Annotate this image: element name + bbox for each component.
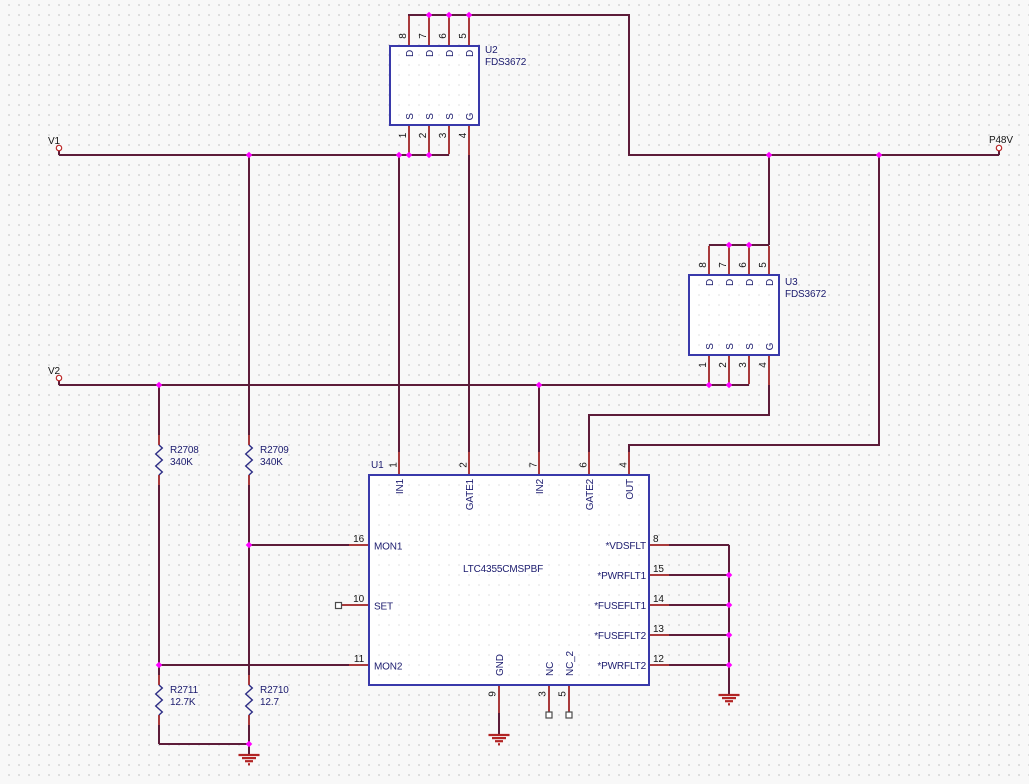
wire V2 to IN2 — [538, 385, 540, 455]
wire R2711 bottom — [158, 725, 160, 744]
wire VDSFLT wire — [669, 544, 729, 546]
wire U2 gate to GATE1 — [468, 155, 470, 455]
pin U2 pin 7 stub — [428, 16, 430, 46]
pin U3 pin 7 stub — [728, 246, 730, 275]
svg-text:S: S — [705, 343, 716, 350]
svg-text:8: 8 — [398, 33, 409, 39]
pin U1 PWRFLT2 stub — [649, 664, 669, 666]
wire bottom gnd wire — [159, 743, 249, 745]
U1 pin name IN1 — [395, 478, 406, 494]
U1 pin name NC_2 — [565, 650, 576, 676]
svg-text:12.7: 12.7 — [260, 697, 279, 708]
svg-text:S: S — [425, 113, 436, 120]
svg-text:LTC4355CMSPBF: LTC4355CMSPBF — [463, 564, 543, 575]
pin U1 FUSEFLT2 stub — [649, 634, 669, 636]
svg-text:13: 13 — [653, 624, 664, 635]
resistor R2708 — [156, 435, 200, 485]
svg-text:D: D — [425, 50, 436, 57]
wire OUT to P48V rail — [629, 155, 879, 455]
junction bus-PWRFLT2 — [726, 662, 733, 669]
junction V1-U2p1 — [406, 152, 413, 159]
pin U2 pin 2 stub — [428, 125, 430, 154]
U2 pin number 8 — [398, 33, 409, 39]
U2 pin number 2 — [418, 132, 429, 138]
junction V2-IN2 — [536, 382, 543, 389]
junction P48V-U3 — [766, 152, 773, 159]
svg-text:5: 5 — [558, 691, 569, 697]
U1 pin name *FUSEFLT1 — [594, 601, 646, 612]
wire FUSEFLT1 wire — [669, 604, 729, 606]
wire PWRFLT2 wire — [669, 664, 729, 666]
junction P48V-OUT — [876, 152, 883, 159]
svg-text:12: 12 — [653, 654, 664, 665]
pin U1 IN2 stub — [538, 452, 540, 475]
svg-text:6: 6 — [438, 33, 449, 39]
wire FUSEFLT2 wire — [669, 634, 729, 636]
pin U1 MON2 stub — [349, 664, 369, 666]
svg-text:*PWRFLT1: *PWRFLT1 — [597, 571, 646, 582]
U1 pin name GATE1 — [465, 478, 476, 510]
junction U3 drain p6 — [746, 242, 753, 249]
U2 reference label — [485, 45, 527, 68]
U2 pin name S pin 2 — [425, 113, 436, 120]
wire V2 to R2708 — [158, 385, 160, 435]
svg-text:D: D — [705, 279, 716, 286]
pin U1 FUSEFLT1 stub — [649, 604, 669, 606]
svg-text:GATE2: GATE2 — [585, 478, 596, 510]
junction U2 drain p6 — [446, 12, 453, 19]
pin U1 GATE2 stub — [588, 452, 590, 475]
U1 pin number 11 — [354, 654, 365, 665]
pin U3 pin 8 stub — [708, 246, 710, 275]
svg-text:V1: V1 — [48, 136, 61, 147]
wire GATE2 to U3 gate — [589, 385, 769, 455]
pin U2 pin 6 stub — [448, 16, 450, 46]
wire R2708 to R2711 — [158, 485, 160, 675]
svg-text:4: 4 — [619, 462, 630, 468]
U3 pin name D pin 7 — [725, 279, 736, 286]
U3 pin number 1 — [698, 362, 709, 368]
wire V1 rail — [59, 154, 449, 156]
net label V2 — [48, 366, 61, 377]
svg-text:NC_2: NC_2 — [565, 650, 576, 676]
U1 pin name IN2 — [535, 478, 546, 494]
U2 pin name D pin 7 — [425, 50, 436, 57]
junction bus-FUSEFLT1 — [726, 602, 733, 609]
junction MON2 tap — [156, 662, 163, 669]
pin U3 pin 3 stub — [748, 355, 750, 384]
pin U3 pin 5 stub — [768, 246, 770, 275]
wire U3 drain rail — [709, 244, 769, 246]
svg-text:R2711: R2711 — [170, 685, 199, 696]
svg-text:3: 3 — [538, 691, 549, 697]
svg-text:U1: U1 — [371, 460, 384, 471]
terminal V1 — [56, 145, 61, 150]
U3 pin name S pin 2 — [725, 343, 736, 350]
wire V1 to R2709 — [248, 155, 250, 435]
terminal wire V1 stub — [58, 151, 60, 155]
pin U1 MON1 stub — [349, 544, 369, 546]
svg-text:1: 1 — [698, 362, 709, 368]
svg-text:D: D — [465, 50, 476, 57]
U3 pin name S pin 3 — [745, 343, 756, 350]
junction V1-U2p2 — [426, 152, 433, 159]
terminal V2 — [56, 375, 61, 380]
U3 pin number 4 — [758, 362, 769, 368]
pin U1 VDSFLT stub — [649, 544, 669, 546]
svg-text:D: D — [725, 279, 736, 286]
pin U1 GATE1 stub — [468, 452, 470, 475]
svg-text:S: S — [445, 113, 456, 120]
svg-text:10: 10 — [353, 594, 364, 605]
svg-text:6: 6 — [738, 262, 749, 268]
ground U1 GND ground — [489, 735, 510, 744]
U1 pin name *PWRFLT1 — [597, 571, 646, 582]
U2 pin number 7 — [418, 33, 429, 39]
U3 pin number 6 — [738, 262, 749, 268]
wire to ground — [248, 744, 250, 755]
svg-text:IN1: IN1 — [395, 478, 406, 494]
svg-text:3: 3 — [438, 132, 449, 138]
junction bus-PWRFLT1 — [726, 572, 733, 579]
U1 pin number 3 — [538, 691, 549, 697]
U3 pin number 3 — [738, 362, 749, 368]
svg-text:D: D — [445, 50, 456, 57]
svg-text:D: D — [745, 279, 756, 286]
pin U3 pin 4 stub — [768, 355, 770, 385]
U1 part value label — [463, 564, 543, 575]
pin U3 pin 2 stub — [728, 355, 730, 384]
wire P48V to U3 drains — [768, 155, 770, 245]
terminal P48V — [996, 145, 1001, 150]
pin U2 pin 3 stub — [448, 125, 450, 154]
svg-text:4: 4 — [458, 132, 469, 138]
net label P48V — [989, 135, 1013, 146]
unconnected square NC pin3 — [546, 712, 552, 718]
svg-text:14: 14 — [653, 594, 664, 605]
svg-text:*FUSEFLT1: *FUSEFLT1 — [594, 601, 646, 612]
svg-text:OUT: OUT — [625, 479, 636, 500]
U3 pin name S pin 1 — [705, 343, 716, 350]
U2 pin name D pin 6 — [445, 50, 456, 57]
U3 pin name D pin 6 — [745, 279, 756, 286]
U1 pin number 5 — [558, 691, 569, 697]
U2 pin name S pin 3 — [445, 113, 456, 120]
U1 pin number 8 — [653, 534, 659, 545]
svg-text:1: 1 — [398, 132, 409, 138]
U2 pin number 5 — [458, 33, 469, 39]
unconnected square SET — [336, 603, 342, 609]
transistor U2 FDS3672 body — [390, 46, 479, 125]
U1 pin number 7 — [529, 462, 540, 468]
svg-text:*PWRFLT2: *PWRFLT2 — [597, 661, 646, 672]
svg-text:2: 2 — [718, 362, 729, 368]
U2 pin name S pin 1 — [405, 113, 416, 120]
U1 pin name *PWRFLT2 — [597, 661, 646, 672]
svg-text:R2709: R2709 — [260, 445, 289, 456]
U1 pin name NC — [545, 662, 556, 676]
wire V2 rail — [59, 384, 749, 386]
svg-text:GND: GND — [495, 654, 506, 676]
svg-text:G: G — [465, 112, 476, 120]
wire GND to ground — [498, 713, 500, 735]
U1 pin number 14 — [653, 594, 664, 605]
wire V1 to IN1 — [398, 155, 400, 455]
pin U1 SET stub — [342, 604, 370, 606]
junction V2-U3p1 — [706, 382, 713, 389]
svg-text:D: D — [405, 50, 416, 57]
svg-text:NC: NC — [545, 662, 556, 676]
svg-text:FDS3672: FDS3672 — [785, 289, 827, 300]
U1 reference label — [371, 460, 384, 471]
U1 pin number 1 — [389, 462, 400, 468]
junction U3 drain p7 — [726, 242, 733, 249]
U1 pin number 15 — [653, 564, 664, 575]
wire fault ground bus — [728, 545, 730, 695]
junction V2-U3p2 — [726, 382, 733, 389]
wire R2710 bottom — [248, 725, 250, 744]
svg-text:1: 1 — [389, 462, 400, 468]
U1 pin number 9 — [488, 691, 499, 697]
svg-text:15: 15 — [653, 564, 664, 575]
wire U2 drains to P48V rail — [409, 15, 999, 155]
wire PWRFLT1 wire — [669, 574, 729, 576]
junction MON1 tap — [246, 542, 253, 549]
svg-text:MON2: MON2 — [374, 662, 403, 673]
svg-text:R2710: R2710 — [260, 685, 289, 696]
U1 pin name SET — [374, 602, 393, 613]
junction bottom gnd — [246, 741, 253, 748]
U1 pin number 16 — [353, 534, 364, 545]
U3 pin number 2 — [718, 362, 729, 368]
ground fault bus ground — [719, 695, 740, 704]
U1 pin number 10 — [353, 594, 364, 605]
U1 pin name MON1 — [374, 542, 403, 553]
pin U1 IN1 stub — [398, 452, 400, 475]
svg-text:7: 7 — [529, 462, 540, 468]
svg-text:5: 5 — [458, 33, 469, 39]
U1 pin name *FUSEFLT2 — [594, 631, 646, 642]
svg-text:2: 2 — [418, 132, 429, 138]
junction U2 drain p7 — [426, 12, 433, 19]
U1 pin number 2 — [459, 462, 470, 468]
junction V1-IN1 — [396, 152, 403, 159]
pin U1 OUT stub — [628, 452, 630, 475]
U2 pin name D pin 5 — [465, 50, 476, 57]
U2 pin number 3 — [438, 132, 449, 138]
svg-text:5: 5 — [758, 262, 769, 268]
svg-text:U3: U3 — [785, 277, 798, 288]
svg-text:7: 7 — [418, 33, 429, 39]
pin U2 pin 1 stub — [408, 125, 410, 154]
svg-text:4: 4 — [758, 362, 769, 368]
pin U2 pin 4 stub — [468, 125, 470, 155]
transistor U3 FDS3672 body — [689, 275, 779, 355]
svg-text:9: 9 — [488, 691, 499, 697]
svg-text:8: 8 — [653, 534, 659, 545]
svg-text:R2708: R2708 — [170, 445, 199, 456]
net label V1 — [48, 136, 61, 147]
svg-text:6: 6 — [579, 462, 590, 468]
pin U1 NC_2 stub — [568, 685, 570, 712]
svg-text:*VDSFLT: *VDSFLT — [606, 541, 646, 552]
U1 pin number 13 — [653, 624, 664, 635]
svg-text:*FUSEFLT2: *FUSEFLT2 — [594, 631, 646, 642]
svg-text:V2: V2 — [48, 366, 61, 377]
svg-text:S: S — [745, 343, 756, 350]
pin U1 GND stub — [498, 685, 500, 713]
junction U2 drain p5 — [466, 12, 473, 19]
junction V1-R2709 — [246, 152, 253, 159]
pin U1 NC stub — [548, 685, 550, 712]
wire MON1 wire — [249, 544, 349, 546]
resistor R2710 — [246, 675, 290, 725]
svg-text:FDS3672: FDS3672 — [485, 57, 527, 68]
U1 pin name GND — [495, 654, 506, 676]
U3 pin number 7 — [718, 262, 729, 268]
svg-text:S: S — [725, 343, 736, 350]
U1 pin number 4 — [619, 462, 630, 468]
pin U1 PWRFLT1 stub — [649, 574, 669, 576]
U1 pin name *VDSFLT — [606, 541, 646, 552]
U2 pin number 6 — [438, 33, 449, 39]
terminal wire V2 stub — [58, 381, 60, 385]
svg-text:MON1: MON1 — [374, 542, 403, 553]
U3 pin name D pin 5 — [765, 279, 776, 286]
svg-text:P48V: P48V — [989, 135, 1013, 146]
svg-text:11: 11 — [354, 654, 365, 665]
U3 pin number 8 — [698, 262, 709, 268]
IC U1 LTC4355CMSPBF body — [369, 475, 649, 685]
terminal wire P48V stub — [998, 151, 1000, 155]
resistor R2711 — [156, 675, 199, 725]
svg-text:D: D — [765, 279, 776, 286]
svg-text:340K: 340K — [260, 457, 283, 468]
svg-text:340K: 340K — [170, 457, 193, 468]
junction bus-FUSEFLT2 — [726, 632, 733, 639]
svg-text:12.7K: 12.7K — [170, 697, 196, 708]
U1 pin number 12 — [653, 654, 664, 665]
svg-text:S: S — [405, 113, 416, 120]
svg-text:IN2: IN2 — [535, 478, 546, 494]
U2 pin name G pin 4 — [465, 112, 476, 120]
junction V2-R2708 — [156, 382, 163, 389]
U1 pin name MON2 — [374, 662, 403, 673]
pin U3 pin 6 stub — [748, 246, 750, 275]
U3 pin number 5 — [758, 262, 769, 268]
svg-text:3: 3 — [738, 362, 749, 368]
pin U2 pin 8 stub — [408, 16, 410, 46]
svg-text:G: G — [765, 342, 776, 350]
unconnected square NC_2 pin5 — [566, 712, 572, 718]
svg-text:2: 2 — [459, 462, 470, 468]
ground divider ground — [239, 755, 260, 764]
wire MON2 wire — [159, 664, 349, 666]
svg-text:16: 16 — [353, 534, 364, 545]
pin U2 pin 5 stub — [468, 16, 470, 46]
svg-text:8: 8 — [698, 262, 709, 268]
svg-text:SET: SET — [374, 602, 393, 613]
U2 pin name D pin 8 — [405, 50, 416, 57]
svg-text:7: 7 — [718, 262, 729, 268]
U3 pin name G pin 4 — [765, 342, 776, 350]
wire R2709 to R2710 — [248, 485, 250, 675]
svg-text:GATE1: GATE1 — [465, 478, 476, 510]
U1 pin name OUT — [625, 479, 636, 500]
svg-text:U2: U2 — [485, 45, 498, 56]
U1 pin number 6 — [579, 462, 590, 468]
U1 pin name GATE2 — [585, 478, 596, 510]
resistor R2709 — [246, 435, 290, 485]
pin U3 pin 1 stub — [708, 355, 710, 384]
U2 pin number 4 — [458, 132, 469, 138]
U3 reference label — [785, 277, 827, 300]
U2 pin number 1 — [398, 132, 409, 138]
U3 pin name D pin 8 — [705, 279, 716, 286]
